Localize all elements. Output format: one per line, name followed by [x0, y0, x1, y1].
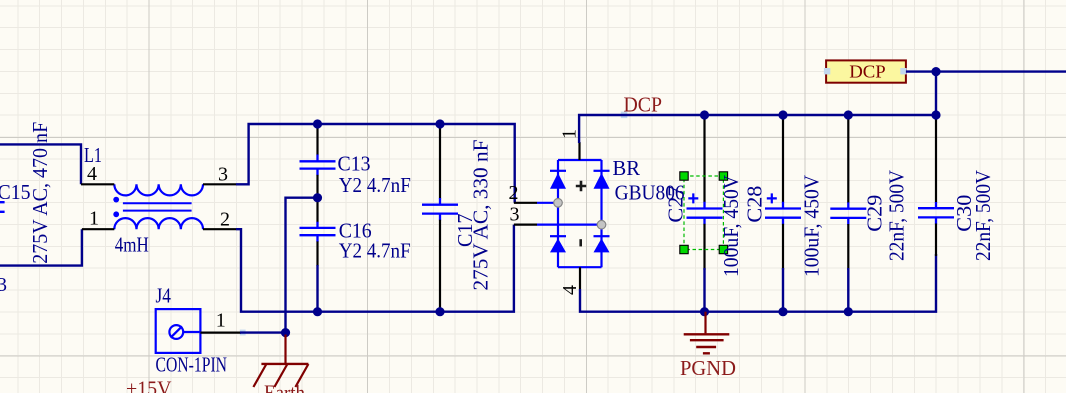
wire - C13/C16 midpoint to Earth [286, 198, 318, 333]
BR pin 4 [579, 267, 581, 289]
C27 selection box (green dashed) [684, 176, 723, 250]
svg-text:1: 1 [89, 208, 99, 230]
wire - BR pin4 down to DC bottom rail across cap bank [580, 254, 936, 312]
L1 pin 4 [81, 183, 114, 185]
junction - C28 bottom [778, 307, 787, 316]
J4 pin 1 [200, 332, 241, 334]
svg-text:100uF, 450V: 100uF, 450V [719, 175, 743, 277]
svg-text:C15: C15 [0, 180, 31, 204]
C28 plus mark [767, 193, 777, 203]
wire - L1 pin3 up and across top AC rail to BR pin 2 [236, 124, 515, 203]
wire - C28 bottom [782, 268, 784, 312]
svg-text:C28: C28 [743, 186, 767, 223]
capacitor C28 [782, 115, 784, 202]
svg-text:Y2 4.7nF: Y2 4.7nF [339, 173, 411, 197]
svg-text:4: 4 [559, 285, 581, 295]
junction - C27 top [700, 110, 709, 119]
capacitor C15 (partially off-screen) [0, 202, 5, 212]
wire - BR pin1 up to DCP rail across cap bank [579, 115, 936, 143]
wire - J4 pin to Earth junction [240, 331, 286, 333]
BR plus mark [576, 181, 586, 191]
junction - port wire [931, 67, 940, 76]
svg-text:DCP: DCP [624, 92, 663, 116]
port DCP (yellow box) [826, 60, 906, 82]
junction - C28 top [778, 110, 787, 119]
capacitor C30 [935, 115, 937, 203]
BR pin 1 [578, 142, 580, 160]
junction - C16 bottom on AC rail [313, 307, 322, 316]
bridge rectifier BR GBU806 body [537, 160, 602, 267]
junction - C13 top on AC rail [313, 119, 322, 128]
svg-text:C29: C29 [863, 195, 887, 232]
svg-text:2: 2 [220, 208, 230, 230]
svg-text:275V AC, 470 nF: 275V AC, 470 nF [28, 122, 52, 264]
earth ground symbol [284, 335, 286, 364]
C27 selection handle [719, 245, 727, 253]
wire - port rail down to DCP rail [935, 72, 937, 115]
svg-text:J4: J4 [156, 284, 172, 308]
capacitor C27 [703, 115, 705, 202]
BR pin 3 connection dot (grey) [597, 220, 606, 229]
junction - C17 bottom [435, 307, 444, 316]
capacitor C13 [316, 124, 318, 155]
svg-text:1: 1 [216, 309, 226, 331]
junction - C29 bottom [844, 307, 853, 316]
wire - C27 bottom [703, 268, 705, 312]
capacitor C17 [439, 124, 441, 199]
wire - DCP port to right edge [906, 70, 1066, 72]
net label anchor mark [621, 112, 628, 119]
svg-text:3: 3 [0, 274, 7, 296]
connector J4 CON-1PIN [156, 309, 201, 353]
diode D-topright of BR [594, 170, 610, 172]
svg-text:22nF, 500V: 22nF, 500V [971, 170, 995, 261]
diode D-bottomleft of BR [550, 235, 566, 237]
L1 pin 1 [82, 228, 114, 230]
wire - bottom AC rail from C15 to L1 pin 1 [0, 229, 82, 265]
inductor L1 common-mode choke [114, 184, 203, 195]
junction - C27 bottom / PGND [700, 307, 709, 316]
svg-text:2: 2 [509, 182, 519, 204]
svg-text:3: 3 [218, 164, 228, 186]
C27 selection handle [680, 245, 688, 253]
svg-text:C13: C13 [338, 151, 371, 175]
svg-text:DCP: DCP [849, 62, 886, 82]
capacitor C29 [847, 115, 849, 203]
L1 pin 3 [203, 183, 236, 185]
BR minus mark [579, 239, 582, 246]
svg-text:Y2 4.7nF: Y2 4.7nF [339, 238, 411, 262]
svg-text:BR: BR [613, 156, 641, 180]
wire - top AC rail from C15 to L1 pin 4 [0, 144, 81, 184]
svg-text:+15V: +15V [126, 377, 172, 393]
C27 selection handle [680, 172, 688, 180]
port handle left [824, 68, 830, 74]
junction - C17 top [435, 119, 444, 128]
junction - C30 top / DCP rail end [931, 110, 940, 119]
svg-text:100uF, 450V: 100uF, 450V [800, 175, 824, 277]
svg-text:4: 4 [87, 163, 97, 185]
diode D-bottomright of BR [594, 235, 610, 237]
diode D-topleft of BR [550, 170, 566, 172]
BR pin 2 connection dot (grey) [554, 199, 563, 208]
wire - C16 bottom to AC rail [316, 265, 318, 312]
junction - J4 / earth wire [281, 328, 290, 337]
svg-text:CON-1PIN: CON-1PIN [156, 353, 228, 377]
BR pin 3 [514, 224, 537, 226]
L1 pin 2 [203, 228, 236, 230]
C27 selection handle [719, 172, 727, 180]
svg-text:Earth: Earth [264, 381, 305, 393]
junction - C13/C16 midpoint [313, 193, 322, 202]
junction - C29 top [844, 110, 853, 119]
C27 plus mark [688, 193, 698, 203]
J4 pin anchor mark [240, 330, 246, 336]
wire - L1 pin2 down and across bottom AC rail to BR pin 3 [236, 225, 514, 312]
wire - C29 bottom [847, 268, 849, 312]
svg-text:22nF, 500V: 22nF, 500V [884, 170, 908, 261]
svg-text:PGND: PGND [680, 356, 736, 380]
svg-text:C27: C27 [663, 186, 687, 223]
svg-text:4mH: 4mH [115, 233, 149, 257]
power ground PGND symbol [704, 312, 706, 334]
capacitor C16 [316, 198, 318, 223]
svg-text:275V AC, 330 nF: 275V AC, 330 nF [469, 140, 493, 291]
BR pin 2 [514, 202, 537, 204]
svg-text:3: 3 [510, 204, 520, 226]
port handle right [900, 68, 906, 74]
svg-text:1: 1 [559, 129, 581, 139]
